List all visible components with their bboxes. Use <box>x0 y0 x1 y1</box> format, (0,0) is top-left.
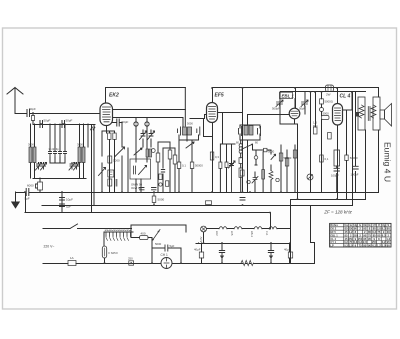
wire speaker return <box>378 130 380 193</box>
wire screen bus <box>281 91 366 93</box>
capacitor C10 1uF <box>60 204 65 207</box>
svg-text:6,3: 6,3 <box>382 227 386 231</box>
wire IF1 lower column <box>179 140 192 192</box>
svg-text:1,2: 1,2 <box>377 244 381 248</box>
svg-text:EF 5: EF 5 <box>330 230 336 234</box>
coil L10 if2 <box>249 126 253 136</box>
capacitor C31 <box>161 170 164 173</box>
wire electrolytic drops <box>202 243 290 263</box>
resistor R1 tap <box>31 116 34 121</box>
dial motor CH1 <box>161 258 172 269</box>
capacitor C11 50pF <box>117 119 119 126</box>
svg-text:5000: 5000 <box>155 242 162 246</box>
svg-text:50pF: 50pF <box>299 107 306 111</box>
wire node C drop <box>315 92 317 128</box>
svg-text:85: 85 <box>373 233 376 237</box>
wire HT vertical <box>352 92 354 206</box>
capacitor C29 box <box>199 252 203 258</box>
svg-text:500pF: 500pF <box>272 107 280 111</box>
wire osc coil chain <box>240 140 242 193</box>
resistor R2 <box>108 133 111 140</box>
resistor R25 <box>159 174 162 180</box>
resistor R5 <box>108 179 112 186</box>
coil L17 frame <box>239 168 243 177</box>
wire main vertical node B <box>242 88 244 193</box>
resistor R26 <box>166 181 169 187</box>
wire smoothing column 2 <box>355 130 357 193</box>
wire trimmer column 2 <box>143 130 151 147</box>
wire EF5 grid loop <box>204 119 213 137</box>
transformer T1 secondary winding <box>371 105 376 118</box>
svg-text:Uk: Uk <box>363 223 367 227</box>
svg-text:50000: 50000 <box>284 156 292 160</box>
svg-text:EF5: EF5 <box>215 93 224 99</box>
svg-text:40μF: 40μF <box>194 248 201 252</box>
coil L2 aerial <box>33 147 36 163</box>
wire mains line top <box>43 224 132 229</box>
wire chassis bus <box>16 192 379 194</box>
coil L6 if1 <box>188 127 192 135</box>
svg-text:5μF: 5μF <box>25 197 30 201</box>
resistor R27 <box>345 155 348 161</box>
svg-text:80: 80 <box>387 227 390 231</box>
capacitor C35 box <box>264 148 268 152</box>
tube EBL1 envelope <box>289 108 300 119</box>
capacitor C16 <box>197 127 200 135</box>
wire CL4 cathode <box>337 125 339 200</box>
circle K3 <box>159 183 162 186</box>
coil L18 <box>262 170 265 179</box>
svg-text:EK2: EK2 <box>109 93 119 99</box>
switch S3 <box>186 142 194 148</box>
capacitor C13 osc grid <box>134 122 138 126</box>
capacitor C24 tone <box>356 112 360 117</box>
capacitor C21 circle <box>320 108 324 112</box>
wire mid column c <box>169 145 171 192</box>
svg-text:1A: 1A <box>70 256 74 260</box>
svg-text:250: 250 <box>348 237 353 241</box>
svg-text:250: 250 <box>358 237 363 241</box>
wire mid column d <box>174 150 176 192</box>
resistor R13 <box>293 150 297 158</box>
potentiometer P2 <box>307 174 313 180</box>
electrolytic C28 <box>268 251 273 256</box>
switch S1 mains <box>152 230 160 242</box>
capacitor C1 antenna 50pF <box>27 110 30 117</box>
switch S4 wave change <box>242 144 253 149</box>
svg-text:100μF: 100μF <box>351 173 359 177</box>
svg-text:0,1: 0,1 <box>325 157 329 161</box>
wire CL4 anode lead <box>343 93 353 111</box>
capacitor C17 <box>239 127 242 136</box>
svg-text:3000: 3000 <box>77 143 83 147</box>
svg-text:50pF: 50pF <box>66 119 73 123</box>
resistor R23 <box>168 150 172 159</box>
wire EK2 cathode chain <box>102 126 115 193</box>
svg-text:3000: 3000 <box>28 143 34 147</box>
svg-text:10μF: 10μF <box>66 198 73 202</box>
wire selector bar <box>104 232 133 263</box>
capacitor C14 osc grid <box>145 122 149 126</box>
svg-text:1,2: 1,2 <box>386 237 390 241</box>
tube EK2 envelope <box>100 103 113 126</box>
wire anode bus right seg <box>291 199 366 201</box>
svg-text:CL 4: CL 4 <box>330 237 336 241</box>
capacitor C26 shunt <box>165 245 168 251</box>
resistor R30 <box>219 162 222 169</box>
coil L5 if1 <box>183 127 187 135</box>
wire IF1 bottoms <box>179 135 199 141</box>
svg-text:EF5: EF5 <box>230 231 233 236</box>
resistor R19 bus <box>152 196 156 203</box>
svg-text:Eumig 4 U: Eumig 4 U <box>383 142 393 182</box>
wire EK2 g4 line <box>113 118 184 128</box>
svg-text:EK2: EK2 <box>215 231 218 236</box>
wire padder drops <box>50 124 65 152</box>
svg-text:2,0: 2,0 <box>349 244 353 248</box>
capacitor C30 box <box>288 252 292 258</box>
svg-text:2,0: 2,0 <box>382 244 386 248</box>
oscillator box OSC <box>130 159 151 179</box>
wire aux vertical <box>355 92 357 131</box>
wire IF2 link <box>248 115 290 126</box>
svg-text:CH 1: CH 1 <box>161 253 168 257</box>
heater H4 CL4 <box>269 227 277 229</box>
wire coil drops <box>31 124 84 147</box>
wire EBL1 drop <box>295 88 297 109</box>
svg-text:6,3: 6,3 <box>382 233 386 237</box>
heater H2 EF5 <box>234 227 242 229</box>
svg-text:2W: 2W <box>326 93 331 97</box>
wire anode bus A <box>106 87 186 89</box>
resistor R18 <box>328 133 332 140</box>
svg-text:75: 75 <box>368 233 371 237</box>
capacitor C7 padder <box>64 152 67 158</box>
svg-text:6,3V: 6,3V <box>199 236 203 242</box>
resistor R22 <box>156 153 160 162</box>
svg-text:EBL 1: EBL 1 <box>330 233 338 237</box>
table cells <box>344 223 391 247</box>
svg-text:S: S <box>387 223 389 227</box>
capacitor C25 <box>240 198 245 201</box>
svg-text:0,3: 0,3 <box>215 155 219 159</box>
wire EK2 g1 column <box>101 131 103 192</box>
svg-text:400: 400 <box>141 232 146 236</box>
wire output drop <box>378 88 380 98</box>
wire AVC bus <box>42 205 353 207</box>
svg-text:EBL1: EBL1 <box>250 231 253 238</box>
capacitor C36 circle <box>254 156 258 160</box>
svg-text:85: 85 <box>368 230 371 234</box>
svg-text:6,3: 6,3 <box>372 230 376 234</box>
wire switch link <box>253 144 272 192</box>
fuse F1 <box>68 261 76 266</box>
svg-text:Ug: Ug <box>382 223 386 227</box>
wire det resistor drops <box>281 145 295 193</box>
svg-text:45: 45 <box>345 230 348 234</box>
wire HT bus B <box>213 87 379 89</box>
svg-text:3p 3p 3p: 3p 3p 3p <box>49 147 60 151</box>
svg-text:250: 250 <box>348 227 353 231</box>
trimmer CT2 <box>41 163 47 171</box>
capacitor C12 <box>115 180 117 187</box>
component X2 <box>322 116 330 120</box>
wire dropper leads <box>131 238 152 249</box>
svg-text:50000: 50000 <box>350 156 358 160</box>
resistor R31 <box>225 162 228 168</box>
capacitor C32 <box>140 188 145 190</box>
resistor R33 zigzag <box>269 171 273 180</box>
potentiometer arrow P3 <box>271 154 276 159</box>
svg-text:0,1: 0,1 <box>182 164 186 168</box>
tube EF5 envelope <box>207 103 218 123</box>
wire transformer bottom left <box>365 130 367 200</box>
indicator circle K1 <box>151 149 155 153</box>
wire wavetrap lead <box>39 178 41 192</box>
speaker frame <box>373 97 380 130</box>
svg-text:95: 95 <box>368 237 371 241</box>
resistor R20 400 <box>140 236 149 240</box>
wire EF5 screen drop <box>222 113 224 145</box>
wire filter corner <box>311 206 315 264</box>
capacitor C5 padder <box>54 152 57 158</box>
wire volume column <box>121 156 123 192</box>
capacitor C3 <box>62 121 65 128</box>
resistor R16 <box>320 155 324 162</box>
svg-text:95: 95 <box>363 237 366 241</box>
trimmer CT6 <box>148 131 155 140</box>
capacitor C15 <box>178 127 181 135</box>
valve data table <box>330 223 391 247</box>
resistor R32 <box>239 158 243 164</box>
svg-text:50000: 50000 <box>195 164 203 168</box>
coil L1 aerial <box>29 147 32 163</box>
wire EK2 g2 cap lead <box>113 123 123 148</box>
wire trimmer drops <box>39 163 77 165</box>
svg-text:5000: 5000 <box>113 159 120 163</box>
svg-text:220 V~: 220 V~ <box>44 245 55 249</box>
resistor R17 mains dropper <box>334 150 340 166</box>
capacitor C8 chassis <box>26 189 29 196</box>
capacitor C19 <box>276 100 283 107</box>
wire antenna coupling to EK2 <box>31 113 101 115</box>
component X3 bus box <box>206 201 212 205</box>
transformer core <box>368 107 370 121</box>
capacitor C9 10uF <box>60 198 65 201</box>
svg-text:90: 90 <box>368 244 371 248</box>
resistor R8 screen <box>210 152 214 160</box>
barretter F2 <box>102 246 106 258</box>
trimmer arrow K2 <box>134 148 142 155</box>
svg-text:100μF: 100μF <box>331 174 339 178</box>
svg-text:Uf: Uf <box>373 223 376 227</box>
wire right column drop <box>310 92 312 193</box>
wire shunt loop <box>152 248 181 263</box>
svg-text:85: 85 <box>377 233 380 237</box>
svg-text:EBL 1: EBL 1 <box>282 93 295 98</box>
svg-text:Ua: Ua <box>344 223 348 227</box>
component X4 250 <box>129 261 134 265</box>
wire switch box <box>131 225 186 238</box>
wire mid link <box>158 142 175 150</box>
wire heater return bus <box>196 243 291 245</box>
wire mid column b <box>162 148 164 192</box>
svg-text:250: 250 <box>128 257 133 261</box>
wire smoothing column 1 <box>336 166 338 193</box>
coil L14 osc <box>146 149 149 157</box>
wire osc col <box>127 148 129 192</box>
wire EF5 anode drop <box>212 88 214 103</box>
circle K5 <box>276 178 279 181</box>
wire heater end drop <box>290 229 292 264</box>
wire tap drop <box>32 114 34 125</box>
wire EBL1 box <box>280 92 305 199</box>
svg-text:Röhre: Röhre <box>330 223 338 227</box>
coil L15 osc <box>149 149 152 157</box>
trimmer CT7 <box>229 161 236 193</box>
wire coil bottom join <box>31 163 87 179</box>
heater H1 EK2 <box>219 227 227 229</box>
resistor R21 zigzag <box>241 260 253 265</box>
svg-text:F 625 F: F 625 F <box>109 251 119 255</box>
capacitor C2 <box>40 121 43 128</box>
resistor R29 squiggle <box>93 127 95 131</box>
voltage selector teeth <box>106 232 131 237</box>
component X1 <box>108 170 114 177</box>
capacitor C22 100uF <box>334 168 339 171</box>
wire EF5 cathode <box>212 123 214 193</box>
speaker LS1 <box>380 110 385 119</box>
svg-text:OLW 90: OLW 90 <box>131 186 141 190</box>
svg-text:80: 80 <box>373 227 376 231</box>
wire mains line bottom <box>43 263 315 265</box>
resistor R12 <box>285 158 289 166</box>
wire agc column a <box>91 125 93 213</box>
wire agc column b <box>93 125 95 206</box>
capacitor C23 100uF <box>353 166 358 169</box>
svg-text:6000: 6000 <box>27 184 34 188</box>
svg-text:80: 80 <box>387 244 390 248</box>
table row labels <box>330 223 338 247</box>
wire RF input bar <box>33 124 95 147</box>
wire EK2 anode line <box>113 109 186 111</box>
svg-text:CL4: CL4 <box>265 231 268 236</box>
resistor R15 <box>313 127 317 134</box>
svg-text:LP: LP <box>330 244 334 248</box>
wire CL4 anode drop <box>337 88 339 104</box>
svg-text:50pF: 50pF <box>44 119 51 123</box>
svg-text:5000: 5000 <box>268 150 275 154</box>
svg-text:30: 30 <box>387 230 390 234</box>
svg-text:90: 90 <box>354 227 357 231</box>
svg-text:110 125 145 160 200 240: 110 125 145 160 200 240 <box>105 229 131 231</box>
svg-text:5000: 5000 <box>158 198 165 202</box>
wire antenna lead <box>15 113 26 115</box>
wire lamp drop <box>203 232 205 244</box>
svg-text:CL 4: CL 4 <box>340 94 351 100</box>
trimmer CT3 <box>69 163 75 171</box>
resistor R4 volume <box>108 156 112 163</box>
resistor R6 <box>177 162 181 169</box>
svg-text:40μF: 40μF <box>284 248 291 252</box>
svg-text:ZF = 128 kHz: ZF = 128 kHz <box>323 210 352 215</box>
wire det links <box>255 150 263 193</box>
svg-text:EK 2: EK 2 <box>330 227 336 231</box>
wire padder bottoms <box>50 157 65 163</box>
wire cap feed <box>198 242 200 244</box>
wire osc box drops <box>136 179 141 192</box>
transformer T1 primary winding <box>359 105 364 118</box>
capacitor C6 padder <box>59 152 62 158</box>
wire EBL1 tube top <box>294 99 296 109</box>
wire osc grid drops <box>136 118 147 163</box>
circle K4 <box>247 180 250 183</box>
transformer T1 primary frame <box>358 97 365 130</box>
wire heater chain <box>206 228 290 230</box>
capacitor C34 box <box>240 170 244 176</box>
svg-text:If: If <box>378 223 380 227</box>
svg-text:Ug: Ug <box>354 223 358 227</box>
switch S2 wave <box>99 168 106 176</box>
resistor R3 <box>113 133 116 140</box>
wire mid column a <box>157 142 159 192</box>
wire output return <box>290 200 292 244</box>
svg-text:MΩ: MΩ <box>313 124 317 128</box>
wire IF1 vertical <box>184 88 186 127</box>
svg-text:75: 75 <box>377 230 380 234</box>
wire mixer cluster drops <box>220 144 235 193</box>
resistor R28 squiggle <box>91 127 93 131</box>
wire EF5 anode lead <box>218 112 243 114</box>
resistor R11 <box>279 153 283 161</box>
pilot lamp LP1 <box>201 226 207 232</box>
trimmer CT1 <box>36 163 42 171</box>
wire CL4 grid chain <box>321 92 323 192</box>
capacitor C18 <box>258 127 261 136</box>
svg-text:2,0: 2,0 <box>377 227 381 231</box>
svg-text:250: 250 <box>353 233 358 237</box>
potentiometer arrow P1 <box>115 147 125 157</box>
wire return bus riser <box>25 193 27 213</box>
capacitor C33 <box>152 188 157 190</box>
svg-text:1,2: 1,2 <box>349 230 353 234</box>
svg-text:6,3: 6,3 <box>372 244 376 248</box>
resistor R7 <box>190 162 194 169</box>
component ZW1 2W <box>326 85 334 92</box>
coil L9 if2 <box>244 126 248 136</box>
wire return bus right drop <box>270 213 272 229</box>
svg-text:90: 90 <box>363 233 366 237</box>
svg-text:80: 80 <box>363 244 366 248</box>
capacitor C20 <box>301 100 308 107</box>
trimmer CT5 <box>140 131 147 140</box>
coil L3 rf <box>78 147 81 163</box>
resistor R24 <box>173 155 177 164</box>
antenna <box>7 88 23 114</box>
svg-text:5μF: 5μF <box>170 244 175 248</box>
wire decoupling column <box>61 192 63 213</box>
svg-text:50pF: 50pF <box>29 107 36 111</box>
svg-text:5000Ω: 5000Ω <box>325 100 333 104</box>
ground GND1 <box>15 192 17 202</box>
svg-text:95: 95 <box>363 227 366 231</box>
svg-text:50pF: 50pF <box>122 120 129 124</box>
electrolytic C37 <box>252 177 258 184</box>
svg-text:0,3: 0,3 <box>344 244 348 248</box>
wire IF2 drops <box>240 125 260 193</box>
electrolytic C27 <box>219 251 224 256</box>
wire IF1 secondary line <box>190 115 207 119</box>
